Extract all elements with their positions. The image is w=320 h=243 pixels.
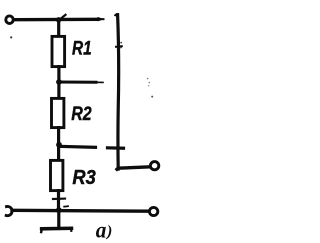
svg-text:R3: R3 [72,166,96,189]
svg-text:а: а [96,217,107,242]
svg-text:): ) [105,223,112,240]
svg-text:R1: R1 [72,37,92,59]
svg-text:R2: R2 [71,103,91,125]
